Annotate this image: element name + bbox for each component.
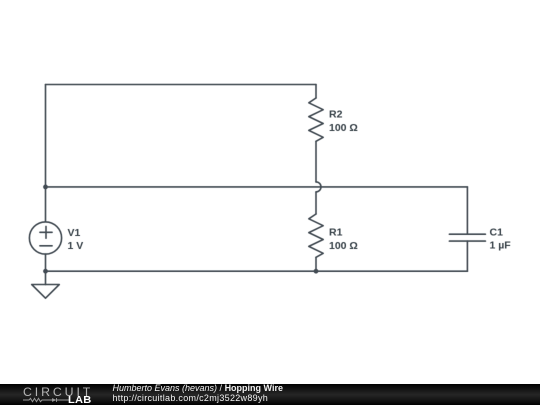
wire: top horizontal net from V1 top to R2 top	[46, 84, 317, 86]
footer line 2: url	[113, 393, 269, 404]
svg-text:1 µF: 1 µF	[490, 240, 512, 252]
node: junction dot at V1 top / middle wire	[43, 185, 48, 190]
voltage source V1	[29, 222, 61, 271]
label C1 1µF	[490, 226, 512, 251]
wire: left vertical from top wire to V1	[45, 85, 47, 222]
label V1 1V	[68, 227, 84, 252]
wire: middle horizontal net (V1+ to C1 top)	[46, 186, 468, 188]
svg-text:100 Ω: 100 Ω	[329, 122, 358, 134]
wire: bottom horizontal net	[46, 270, 468, 272]
svg-text:R1: R1	[329, 227, 343, 239]
wire: hop of R2-R1 wire over middle net	[316, 182, 321, 192]
resistor R2	[309, 85, 323, 182]
svg-text:R2: R2	[329, 109, 343, 121]
label R2 100Ω	[329, 109, 358, 134]
svg-text:C1: C1	[490, 226, 504, 238]
svg-text:1 V: 1 V	[68, 240, 84, 252]
node: junction dot V1 bottom	[43, 269, 48, 274]
resistor R1	[309, 192, 323, 271]
svg-text:100 Ω: 100 Ω	[329, 240, 358, 252]
svg-text:V1: V1	[68, 227, 81, 239]
CircuitLab logo wordmark CIRCUIT	[23, 386, 93, 398]
node: junction dot R1 bottom	[314, 269, 319, 274]
CircuitLab logo LAB	[68, 396, 91, 405]
CircuitLab logo squiggle (resistor+diode)	[23, 397, 69, 403]
capacitor C1	[449, 187, 485, 271]
footer bar	[0, 384, 540, 405]
ground	[32, 271, 60, 298]
footer line 1: author / title	[113, 383, 283, 394]
label R1 100Ω	[329, 227, 358, 252]
